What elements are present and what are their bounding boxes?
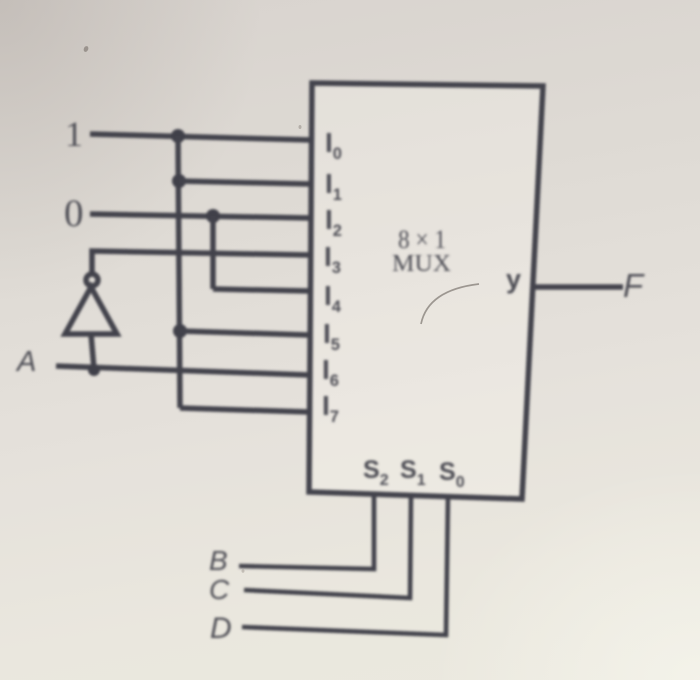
wire to I5 [180,331,309,335]
svg-text:8 × 1: 8 × 1 [398,225,446,254]
dust speck [83,45,90,52]
svg-text:A: A [15,346,36,378]
wire inverter output to I3 [92,251,310,273]
inverter U2 triangle [65,287,117,334]
dust speck [242,569,245,573]
svg-text:B: B [209,545,228,576]
node junction on 1-line [171,129,185,143]
wire input-A to I6 [56,366,309,375]
svg-text:MUX: MUX [392,251,451,277]
wire inverter input [91,334,94,369]
wire input-0 to I2 [90,214,310,218]
node junction on A-line [88,364,100,376]
svg-text:F: F [623,267,645,304]
node junction I1 [172,174,186,188]
node junction on 0-line [206,209,220,223]
paper highlight inside box [309,83,543,499]
svg-text:1: 1 [65,114,83,154]
stray pencil arc mark [421,284,479,324]
wire select S2 from B [239,495,374,569]
svg-text:D: D [210,612,232,645]
wire to I1 [179,181,310,184]
mux box U1 (8x1 MUX) [309,83,543,499]
svg-text:C: C [209,574,230,605]
wire vertical bus from 1 [178,136,180,408]
dust speck [299,125,302,129]
node junction I5 [173,324,187,338]
wire vertical from 0 [210,216,216,289]
wire select S1 from C [244,496,411,598]
wire select S0 from D [242,496,448,635]
wire to I7 [180,408,309,412]
wire to I4 [213,289,310,291]
inverter U2 bubble [86,274,98,286]
svg-text:0: 0 [64,192,84,235]
wire output y to F [533,284,623,290]
svg-text:y: y [506,264,521,294]
wire input-1 to I0 [90,134,311,140]
